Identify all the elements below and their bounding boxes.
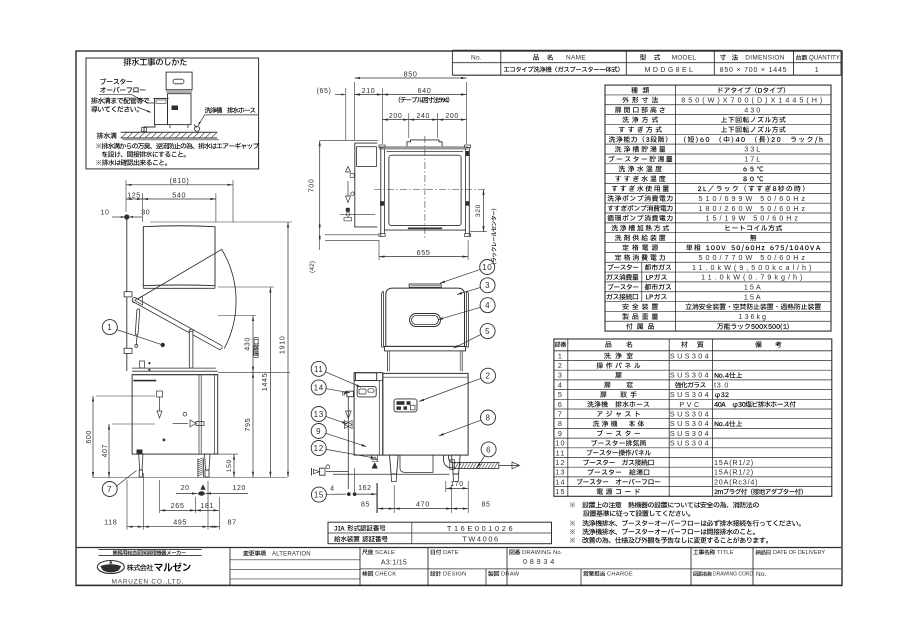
svg-text:SUS304: SUS304 [670, 371, 711, 380]
svg-text:30: 30 [141, 210, 150, 217]
svg-text:SUS304: SUS304 [670, 390, 711, 399]
svg-text:15A(R1/2): 15A(R1/2) [714, 468, 754, 477]
svg-text:NAME: NAME [566, 55, 586, 62]
plan view dim 850 [354, 82, 356, 140]
front view hose arrow [499, 464, 512, 466]
spec row 1 種類 [631, 87, 649, 93]
svg-text:DRAWING No.: DRAWING No. [522, 550, 563, 556]
svg-text:12: 12 [555, 458, 565, 467]
svg-text:3: 3 [485, 281, 490, 290]
svg-text:No.: No. [471, 55, 482, 62]
side view door handle bar [189, 329, 193, 333]
specification table [605, 85, 831, 331]
title cell [693, 549, 715, 554]
svg-text:15A: 15A [744, 283, 763, 292]
part circle 9 [311, 424, 326, 439]
plan view dims 65 210 640 [345, 88, 347, 140]
svg-text:9: 9 [316, 427, 321, 436]
top table header QUANTITY [796, 55, 807, 61]
side view legs [139, 454, 143, 470]
svg-text:17L: 17L [744, 155, 762, 164]
side view floor ext line [93, 477, 287, 479]
svg-text:15: 15 [555, 487, 565, 496]
side view door swing arc fan [135, 249, 236, 348]
maruzen logo mark [97, 561, 124, 574]
alteration rows [230, 559, 360, 561]
svg-text:PVC: PVC [679, 400, 701, 409]
side view counter line [132, 367, 216, 369]
part circle 2 [481, 368, 496, 383]
drawing no cell [509, 549, 520, 554]
svg-text:10: 10 [101, 210, 110, 217]
svg-text:SUS304: SUS304 [670, 419, 711, 428]
svg-text:10: 10 [555, 439, 565, 448]
spec row 20 gas [607, 274, 639, 280]
svg-text:No.: No. [756, 571, 767, 578]
svg-text:33L: 33L [744, 145, 762, 154]
side view body outline upper [143, 226, 215, 286]
svg-text:700: 700 [307, 179, 316, 193]
plan view centerlines [424, 136, 426, 240]
inset booster [155, 99, 168, 125]
JIA certification table [328, 522, 552, 544]
drawing cord cell [693, 571, 712, 576]
svg-text:TW4006: TW4006 [462, 535, 500, 544]
svg-text:15A(R1/2): 15A(R1/2) [714, 458, 754, 467]
front view hood bottom band [385, 346, 466, 351]
front view hood side rails [382, 292, 384, 348]
svg-text:85: 85 [482, 501, 491, 508]
svg-text:540: 540 [172, 190, 186, 199]
front view booster faucet [347, 391, 354, 397]
front view booster panel [357, 387, 376, 397]
svg-text:118: 118 [104, 518, 117, 527]
svg-text:125: 125 [127, 192, 140, 199]
front view bottom dims 85 470 85 [393, 485, 395, 513]
svg-text:5: 5 [485, 327, 490, 336]
side view door pivot [132, 298, 137, 303]
part circle 4 [480, 298, 495, 313]
svg-text:SUS304: SUS304 [670, 410, 711, 419]
svg-text:6: 6 [486, 445, 491, 454]
inset label drain ditch [97, 132, 117, 138]
svg-text:DATE: DATE [443, 550, 459, 556]
spec row 9 洗浄水温度 [619, 166, 662, 172]
svg-text:1: 1 [107, 323, 112, 332]
spec row 10 すすぎ水温度 [615, 175, 665, 181]
plan view rail pins [380, 201, 384, 206]
side view dim 810 [125, 180, 127, 212]
part circle 12 [311, 441, 326, 456]
side view part circle 1 [102, 320, 117, 335]
inset legs and drain pipes [169, 125, 171, 128]
svg-text:320: 320 [475, 204, 482, 217]
svg-text:SUS304: SUS304 [670, 429, 711, 438]
svg-text:2: 2 [558, 361, 563, 370]
part circle 5 [480, 324, 495, 339]
svg-text:470: 470 [416, 499, 430, 508]
svg-text:SUS304: SUS304 [670, 439, 711, 448]
plan view dims 200 240 200 [408, 113, 410, 138]
spec row 17 定格電源 [622, 244, 658, 250]
svg-text:8: 8 [558, 419, 563, 428]
svg-text:5: 5 [558, 390, 563, 399]
svg-text:1910: 1910 [277, 336, 286, 354]
side view dim 407 [108, 424, 110, 478]
svg-text:DATE OF DELIVERY: DATE OF DELIVERY [773, 550, 825, 556]
svg-text:MDDG8EL: MDDG8EL [645, 67, 696, 74]
spec row 3 扉開口部高さ [615, 107, 665, 113]
svg-text:QUANTITY: QUANTITY [809, 55, 840, 62]
front view booster pipes left [347, 397, 349, 489]
plan view table dim note [399, 97, 450, 103]
svg-text:TITLE: TITLE [717, 550, 734, 556]
svg-text:T16E001026: T16E001026 [447, 524, 515, 533]
inset label drain pipe note [91, 97, 149, 104]
drawing frame [76, 51, 842, 586]
svg-text:210: 210 [362, 88, 375, 95]
svg-text:4: 4 [485, 301, 490, 310]
front view bottom dim 4 162 [354, 468, 356, 492]
svg-text:DESIGN: DESIGN [443, 572, 466, 578]
plan view booster plumbing symbols [346, 167, 351, 173]
spec row 19 gas [608, 264, 639, 270]
svg-text:200: 200 [389, 113, 402, 120]
svg-text:20A(Rc3/4): 20A(Rc3/4) [714, 477, 758, 486]
svg-text:20: 20 [181, 485, 190, 492]
side view lower cabinet [132, 375, 218, 454]
spec row 4 洗浄方式 [622, 116, 658, 122]
side view leg plate [137, 450, 143, 455]
svg-text:7: 7 [107, 485, 112, 494]
svg-text:11: 11 [556, 448, 566, 457]
svg-text:4: 4 [330, 486, 335, 493]
maruzen logo block [98, 549, 201, 551]
spec row 5 すすぎ方式 [619, 126, 662, 132]
svg-text:430: 430 [744, 105, 762, 114]
side view hinge post [126, 217, 128, 292]
svg-text:7: 7 [558, 410, 563, 419]
svg-text:1: 1 [558, 351, 563, 360]
front view booster drain fitting [372, 455, 378, 460]
svg-text:(65): (65) [317, 88, 332, 95]
side view dim 150 [233, 454, 235, 477]
svg-text:655: 655 [417, 248, 431, 257]
date cell [431, 549, 441, 554]
inset title [124, 58, 187, 66]
svg-text:495: 495 [173, 518, 187, 527]
scale cell [362, 549, 373, 554]
side view dim 1910 [287, 222, 289, 477]
svg-text:430: 430 [242, 337, 251, 351]
side view pivot dot [124, 214, 129, 219]
top table header MODEL [640, 54, 646, 60]
front view door handle [410, 314, 441, 327]
svg-text:500/770W 50/60Hz: 500/770W 50/60Hz [698, 253, 808, 262]
inset note lines [96, 143, 259, 149]
side view dim 430 door opening [218, 315, 256, 317]
inset machine body [168, 94, 192, 125]
top table header NAME [533, 54, 539, 60]
plan view dim 655 [378, 240, 380, 260]
svg-text:15A: 15A [744, 292, 763, 301]
plan view inner opening [389, 155, 461, 225]
side view dim 1445 [269, 287, 271, 477]
svg-text:(810): (810) [170, 176, 190, 185]
spec row 23 安全装置 [622, 303, 658, 309]
side view bottom dims 118 495 87 [126, 480, 128, 530]
svg-text:15/19W 50/60Hz: 15/19W 50/60Hz [705, 214, 801, 223]
spec row 11 すすぎ水使用量 [612, 185, 669, 191]
plan view dim 320 rack rail center [470, 231, 487, 233]
front view drain hose [444, 455, 456, 468]
side view part circle 7 [102, 482, 117, 497]
svg-text:9: 9 [558, 429, 563, 438]
spec row 7 洗浄槽貯湯量 [615, 146, 665, 152]
check cell [362, 571, 373, 576]
spec row 16 洗剤供給装置 [615, 235, 665, 241]
spec gas sub-dividers [641, 262, 643, 301]
svg-text:1: 1 [815, 67, 820, 74]
maruzen company name [127, 564, 153, 571]
spec row 22 gas [607, 294, 639, 300]
svg-text:265: 265 [171, 501, 185, 510]
front view control panel [394, 399, 417, 412]
svg-text:795: 795 [243, 418, 252, 432]
svg-text:CHARGE: CHARGE [607, 572, 633, 578]
inset floor hatch [121, 131, 218, 133]
plan view side rails [380, 147, 382, 236]
part circle 6 [481, 442, 496, 457]
svg-text:14: 14 [555, 477, 565, 486]
svg-text:08934: 08934 [523, 557, 557, 566]
notes [570, 502, 759, 508]
spec row 24 製品重量 [622, 313, 658, 319]
svg-text:240: 240 [417, 113, 430, 120]
svg-text:15: 15 [314, 491, 324, 500]
front view booster [354, 373, 383, 455]
draw cell [580, 569, 582, 585]
spec row 14 循環ポンプ消費電力 [607, 215, 672, 222]
svg-text:(42): (42) [309, 261, 316, 273]
spec row 12 洗浄ポンプ消費電力 [607, 195, 672, 202]
front view legs [390, 455, 399, 474]
svg-text:4: 4 [558, 380, 563, 389]
part circle 3 [480, 278, 495, 293]
front view left water inlet [326, 471, 348, 473]
side view cabinet fittings [157, 391, 163, 397]
svg-text:850: 850 [404, 69, 418, 78]
side view dim 600 [92, 396, 94, 478]
plan view machine outline [379, 146, 468, 148]
front view hood [386, 288, 465, 346]
side view dim 795 [252, 372, 254, 477]
design cell [485, 569, 487, 585]
svg-text:200: 200 [445, 113, 458, 120]
spec row 15 洗浄槽加熱方式 [611, 225, 668, 231]
svg-text:120: 120 [233, 485, 246, 492]
top title table [452, 49, 841, 51]
svg-text:t3.0: t3.0 [714, 380, 729, 389]
spec row 6 洗浄能力（3段階） [609, 136, 668, 142]
svg-text:11: 11 [314, 365, 324, 374]
spec row 21 gas [608, 284, 639, 290]
svg-text:3: 3 [558, 371, 563, 380]
svg-text:DRAW: DRAW [501, 572, 520, 578]
svg-text:13: 13 [314, 410, 324, 419]
side view hinge bracket [135, 296, 143, 305]
plan view vent protrusion [407, 140, 442, 146]
spec row 8 ブースター貯湯量 [608, 156, 672, 162]
side view damper piston [135, 309, 140, 335]
svg-text:136kg: 136kg [738, 312, 768, 321]
plan view booster footprint [355, 143, 378, 227]
svg-text:162: 162 [358, 485, 371, 492]
part circle 11 [311, 361, 326, 376]
svg-text:150: 150 [226, 459, 233, 472]
svg-text:12: 12 [314, 444, 324, 453]
parts table header [555, 342, 567, 348]
front view tank section [387, 351, 389, 372]
svg-text:11.0kW(9,500kcal/h): 11.0kW(9,500kcal/h) [692, 263, 814, 272]
spec row 2 外形寸法 [622, 97, 658, 103]
svg-text:ALTERATION: ALTERATION [272, 551, 311, 557]
side view open door bar [131, 297, 222, 350]
front view dim 170 [445, 481, 447, 492]
svg-text:407: 407 [102, 444, 109, 457]
svg-text:87: 87 [227, 518, 236, 527]
part circle 15 [311, 487, 326, 502]
front view lower body [383, 373, 468, 455]
svg-text:8: 8 [485, 413, 490, 422]
front view vent cap [409, 284, 441, 287]
svg-text:MODEL: MODEL [672, 55, 697, 62]
spec row 13 すすぎポンプ消費電力 [608, 205, 673, 212]
plan view bottom band [384, 229, 465, 231]
svg-text:181: 181 [200, 501, 214, 510]
part circle 8 [481, 410, 496, 425]
front view corrugated hose [454, 462, 499, 468]
svg-text:A3:1/15: A3:1/15 [381, 560, 407, 567]
side view dims 125 540 [142, 193, 144, 222]
svg-text:10: 10 [482, 263, 492, 272]
svg-text:DIMENSION: DIMENSION [745, 55, 785, 62]
front view under pipe [400, 455, 433, 472]
svg-text:DRAWING CORD: DRAWING CORD [713, 572, 753, 578]
svg-text:600: 600 [86, 430, 93, 443]
parts list table [554, 339, 832, 496]
spec row 18 定格消費電力 [615, 254, 665, 260]
part circle 14 [311, 380, 326, 395]
svg-text:170: 170 [450, 481, 463, 488]
inset label booster overflow [100, 78, 132, 84]
svg-text:640: 640 [418, 86, 432, 95]
title block [76, 547, 841, 549]
inset machine hood [166, 72, 192, 90]
svg-text:850 × 700 × 1445: 850 × 700 × 1445 [720, 67, 788, 74]
svg-text:85: 85 [361, 501, 370, 508]
svg-text:13: 13 [555, 468, 565, 477]
svg-text:SUS304: SUS304 [670, 351, 711, 360]
part circle 10 [480, 260, 495, 275]
svg-text:2: 2 [485, 372, 490, 381]
top table row values [504, 66, 620, 72]
delivery cell [756, 550, 771, 555]
top table header DIMENSION [720, 54, 726, 60]
svg-text:SCALE: SCALE [375, 550, 395, 556]
side view cabinet corner fittings [140, 361, 145, 368]
svg-text:11.0kW(0.79kg/h): 11.0kW(0.79kg/h) [701, 273, 805, 282]
inset box drain work instructions [86, 58, 259, 169]
charge cell [583, 571, 604, 576]
svg-text:6: 6 [558, 400, 563, 409]
svg-text:CHECK: CHECK [375, 572, 396, 578]
svg-text:MARUZEN CO.,LTD.: MARUZEN CO.,LTD. [112, 578, 185, 585]
svg-text:850(W)X700(D)X1445(H): 850(W)X700(D)X1445(H) [681, 96, 825, 105]
front view hose clamp [450, 460, 455, 470]
svg-text:1445: 1445 [260, 373, 269, 391]
plan view dim 42 [325, 234, 379, 236]
side view bottom dims 265 181 [159, 480, 161, 513]
plan view dim 700 [320, 140, 378, 142]
inset label drain hose [205, 107, 256, 113]
svg-text:180/260W 50/60Hz: 180/260W 50/60Hz [698, 204, 808, 213]
svg-text:14: 14 [314, 383, 324, 392]
svg-text:510/699W 50/60Hz: 510/699W 50/60Hz [698, 194, 808, 203]
spec row 25 付属品 [626, 323, 654, 329]
side view drain hose corrugated [197, 459, 199, 478]
part circle 13 [311, 407, 326, 422]
